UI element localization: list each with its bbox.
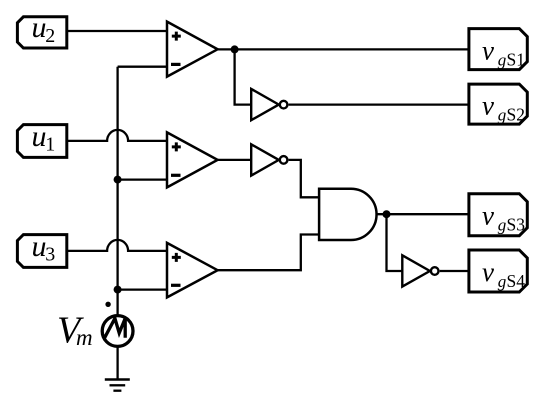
svg-text:v: v bbox=[482, 200, 494, 230]
svg-text:m: m bbox=[76, 325, 93, 350]
svg-text:2: 2 bbox=[45, 25, 55, 47]
wire branch AND output down to inverter U4 input bbox=[387, 214, 403, 271]
wire comparator A2 inverting input from bus bbox=[118, 178, 167, 180]
output port vgS2 bbox=[469, 84, 527, 125]
inverter U2 bbox=[251, 89, 287, 120]
svg-text:v: v bbox=[482, 35, 494, 65]
svg-text:g: g bbox=[498, 215, 507, 234]
wire comparator A1 inverting input from bus bbox=[118, 66, 167, 68]
svg-text:g: g bbox=[498, 272, 507, 291]
input port u2 bbox=[17, 11, 66, 48]
wire AND gate output to port vgS3 bbox=[377, 213, 469, 215]
label Vm bbox=[57, 310, 93, 352]
wire vertical bus net bbox=[116, 67, 118, 315]
wire comparator A2 output to inverter U3 input bbox=[218, 159, 252, 161]
svg-text:S3: S3 bbox=[507, 214, 526, 234]
svg-text:g: g bbox=[498, 106, 507, 125]
svg-text:S4: S4 bbox=[507, 271, 526, 291]
wire inverter U4 output to port vgS4 bbox=[440, 270, 469, 272]
input port u1 bbox=[17, 120, 66, 158]
svg-text:v: v bbox=[482, 257, 494, 287]
junction A1 output node bbox=[231, 45, 239, 53]
junction AND output node bbox=[383, 210, 391, 218]
and gate U5 bbox=[319, 189, 376, 240]
svg-text:1: 1 bbox=[45, 133, 55, 155]
junction bus to A2 inverting input bbox=[114, 176, 122, 184]
source Vm M symbol bbox=[105, 318, 126, 337]
comparator A1 bbox=[167, 22, 218, 77]
svg-text:3: 3 bbox=[45, 243, 55, 265]
comparator A3 bbox=[167, 243, 218, 298]
svg-text:S1: S1 bbox=[507, 49, 525, 69]
wire branch A1 output down to inverter U2 input bbox=[235, 49, 252, 104]
polarity dot of source Vm bbox=[105, 302, 110, 307]
ground bbox=[105, 380, 130, 391]
inverter U3 bbox=[251, 144, 287, 175]
wire comparator A1 output to port vgS1 bbox=[218, 48, 469, 50]
junction bus to A3 inverting input bbox=[114, 286, 122, 294]
wire comparator A3 inverting input from bus bbox=[118, 288, 167, 290]
comparator A2 bbox=[167, 132, 218, 187]
wire u3 to comparator A3 noninverting input with hop over bus bbox=[67, 240, 167, 251]
output port vgS1 bbox=[469, 29, 527, 70]
input port u3 bbox=[17, 230, 66, 268]
wire u1 to comparator A2 noninverting input with hop over bus bbox=[67, 130, 167, 141]
source Vm circle bbox=[102, 316, 133, 347]
wire inverter U2 output to port vgS2 bbox=[289, 103, 469, 105]
svg-text:g: g bbox=[498, 50, 507, 69]
wire u2 to comparator A1 noninverting input bbox=[67, 30, 167, 32]
svg-text:v: v bbox=[482, 91, 494, 121]
wire source Vm to ground bbox=[116, 347, 118, 380]
wire inverter U3 output to AND gate top input bbox=[289, 160, 320, 197]
output port vgS3 bbox=[469, 194, 527, 236]
inverter U4 bbox=[402, 255, 438, 286]
svg-text:S2: S2 bbox=[507, 105, 525, 125]
output port vgS4 bbox=[469, 250, 527, 292]
wire comparator A3 output to AND gate bottom input bbox=[218, 235, 320, 271]
